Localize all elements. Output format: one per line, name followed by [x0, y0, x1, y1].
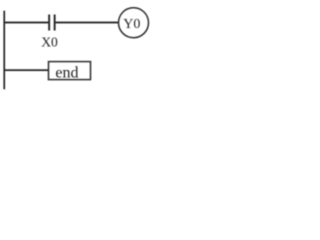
contact X0 right bar	[54, 15, 56, 31]
coil Y0 circle	[119, 8, 149, 38]
wire rung1 left segment	[5, 22, 48, 24]
svg-text:X0: X0	[41, 35, 58, 50]
svg-text:end: end	[55, 64, 78, 81]
end instruction box	[49, 62, 91, 80]
wire rung1 right segment	[56, 22, 118, 24]
svg-text:Y0: Y0	[123, 17, 140, 32]
left power rail	[3, 11, 5, 90]
wire rung2	[5, 69, 49, 71]
contact X0 left bar	[48, 15, 50, 31]
